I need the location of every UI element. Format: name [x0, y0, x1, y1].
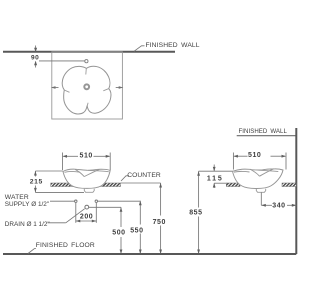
svg-text:WATER: WATER [5, 194, 29, 201]
svg-text:510: 510 [248, 152, 261, 159]
svg-text:115: 115 [207, 176, 222, 183]
svg-text:COUNTER: COUNTER [127, 172, 161, 179]
svg-text:SUPPLY Ø 1/2": SUPPLY Ø 1/2" [5, 201, 49, 208]
svg-text:510: 510 [80, 152, 93, 159]
svg-text:200: 200 [80, 213, 93, 220]
svg-text:FINISHEDWALL: FINISHEDWALL [239, 128, 288, 135]
svg-text:550: 550 [130, 228, 143, 235]
svg-text:855: 855 [189, 210, 202, 217]
svg-text:500: 500 [112, 230, 125, 237]
svg-text:215: 215 [30, 179, 43, 186]
svg-text:90: 90 [31, 55, 39, 62]
svg-text:DRAIN Ø 1 1/2": DRAIN Ø 1 1/2" [5, 221, 50, 228]
svg-text:750: 750 [153, 219, 166, 226]
svg-text:FINISHEDFLOOR: FINISHEDFLOOR [36, 242, 95, 249]
svg-text:FINISHEDWALL: FINISHEDWALL [146, 42, 200, 49]
svg-text:340: 340 [272, 203, 285, 210]
